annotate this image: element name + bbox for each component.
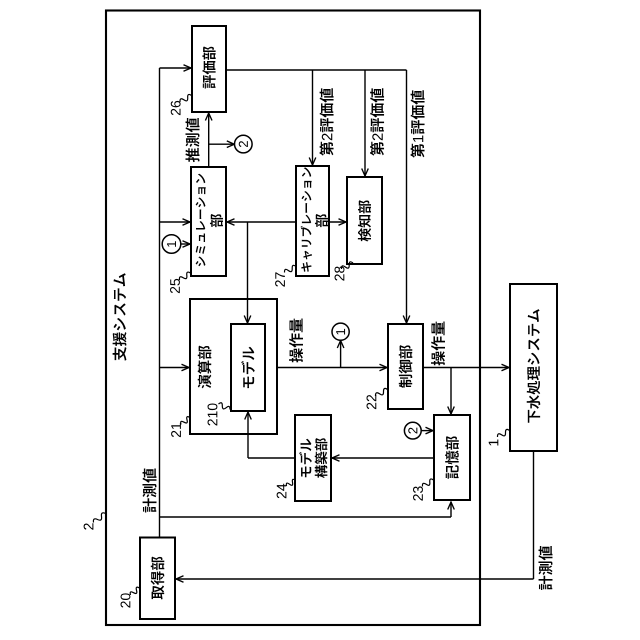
circled 1a digit bbox=[167, 241, 176, 247]
block: sewage treatment system 下水処理システム (1) bbox=[510, 284, 557, 451]
circled 1 marker (near simulation unit) bbox=[162, 235, 181, 254]
wire: drop to calibration unit (第2評価値) bbox=[312, 70, 314, 165]
ref 26 digits bbox=[171, 101, 181, 115]
text: キャリブレーション (line 1) bbox=[301, 167, 312, 271]
wire: model building to model (horizontal) bbox=[248, 457, 295, 459]
arrowhead into 記憶部 top edge bbox=[448, 407, 455, 415]
arrowhead into circled 1 (lower) bbox=[337, 341, 344, 349]
arrowhead into 検知部 top edge bbox=[362, 169, 369, 177]
circled 2a digit bbox=[239, 141, 248, 147]
squiggle for ref 24 bbox=[286, 479, 295, 486]
outer frame: support system 支援システム (2) bbox=[106, 11, 480, 626]
ref 23 digits bbox=[413, 486, 423, 500]
text: 検知部 bbox=[358, 200, 371, 241]
label: 推測値 (estimated value) bbox=[185, 118, 199, 162]
arrowhead into 評価部 left edge bbox=[184, 65, 192, 72]
ref 28 digits bbox=[335, 266, 345, 280]
arrowhead into 演算部 left edge bbox=[182, 364, 190, 371]
squiggle for ref 25 bbox=[179, 272, 190, 280]
label: 操作量 (manipulated variable, right) bbox=[431, 321, 445, 365]
wire: computation to control (操作量) bbox=[277, 367, 387, 369]
wire: bus to computation unit bbox=[160, 367, 190, 369]
circled 1b digit bbox=[336, 329, 345, 335]
arrowhead into 取得部 right edge bbox=[176, 576, 184, 583]
ref 21 digits bbox=[171, 423, 181, 437]
wire: bus branch to storage bottom (vertical) bbox=[450, 502, 452, 517]
ref 1 digit bbox=[489, 439, 499, 445]
wire: branch to circled 2 (upper) bbox=[209, 143, 235, 145]
label: 計測値 (measured value, from sewage system) bbox=[538, 546, 552, 590]
arrowhead into シミュレーション部 left edge (from circled 1) bbox=[183, 241, 191, 248]
wire: branch up to circled 1 (lower) bbox=[340, 341, 342, 368]
arrowhead into シミュレーション部 left edge bbox=[183, 219, 191, 226]
squiggle for ref 27 bbox=[284, 265, 296, 272]
block: control unit 制御部 (22) bbox=[388, 324, 423, 409]
wire: drop to detection unit (第2評価値) bbox=[364, 70, 366, 176]
block: model モデル (210) inside computation unit bbox=[231, 324, 265, 411]
arrowhead into モデル top edge bbox=[244, 316, 251, 324]
text: 記憶部 bbox=[445, 436, 459, 479]
squiggle for ref 23 bbox=[422, 479, 433, 487]
arrowhead into 下水処理システム left edge bbox=[502, 364, 510, 371]
wire: circled2 to storage bbox=[421, 430, 433, 432]
arrowhead into モデル構築部 right edge bbox=[332, 455, 340, 462]
ref 2 digit bbox=[84, 523, 94, 529]
arrowhead up into モデル bottom edge bbox=[245, 412, 252, 420]
label: 支援システム (support system title) bbox=[113, 273, 127, 361]
ref 210 digits bbox=[208, 403, 218, 425]
block: calibration unit キャリブレーション部 (27) bbox=[296, 166, 329, 276]
arrowhead into 記憶部 left edge bbox=[426, 427, 434, 434]
wire: measurement bus vertical (計測値 bus) bbox=[159, 68, 161, 538]
wire: evaluation output trunk bbox=[226, 69, 407, 71]
wire: simulation to evaluation (推測値) bbox=[208, 113, 210, 167]
wire: junction drop to model (inside computation box) bbox=[247, 299, 249, 323]
block: simulation unit シミュレーション部 (25) bbox=[191, 167, 226, 276]
circled 2 marker (near estimated value) bbox=[235, 135, 253, 153]
ref 22 digits bbox=[366, 395, 376, 409]
arrowhead into circled 2 (upper) bbox=[227, 141, 235, 148]
label: 計測値 (measured value, on bus) bbox=[142, 469, 156, 513]
text: モデル (line 1) bbox=[299, 439, 312, 478]
ref 20 digits bbox=[121, 593, 131, 607]
wire: sewage measurement out (vertical) bbox=[533, 451, 535, 579]
squiggle for ref 20 bbox=[130, 587, 139, 595]
arrowhead into 制御部 top edge bbox=[403, 316, 410, 324]
wire: model building to model (inside computation box) bbox=[247, 412, 249, 434]
wire: branch down to storage unit bbox=[450, 368, 452, 415]
block: evaluation unit 評価部 (26) bbox=[192, 26, 226, 112]
text: シミュレーション (line 1) bbox=[196, 174, 206, 267]
wire: drop to control unit (第1評価値) bbox=[406, 70, 408, 323]
label: 操作量 (manipulated variable, left) bbox=[289, 318, 303, 362]
squiggle for ref 1 bbox=[497, 429, 509, 437]
block: storage unit 記憶部 (23) bbox=[434, 415, 470, 500]
text: 部 (line 2 of calibration unit) bbox=[315, 214, 328, 227]
wire: control to sewage system (操作量) bbox=[423, 367, 509, 369]
squiggle for ref 26 bbox=[180, 94, 192, 102]
block: detection unit 検知部 (28) bbox=[347, 177, 382, 264]
text: モデル bbox=[241, 347, 255, 388]
label: 第2評価値 (second evaluation value, to detection) bbox=[370, 88, 384, 156]
wire: calibration to simulation bbox=[227, 221, 296, 223]
squiggle for ref 21 bbox=[181, 417, 190, 425]
arrowhead into キャリブレーション部 top edge bbox=[309, 158, 316, 166]
text: 評価部 bbox=[202, 46, 215, 88]
label: 第2評価値 (second evaluation value, to calibration) bbox=[319, 88, 333, 156]
circled 2b digit bbox=[408, 428, 417, 434]
text: 取得部 bbox=[151, 557, 165, 600]
squiggle for ref 28 bbox=[341, 262, 353, 269]
wire: circled1 to simulation bbox=[181, 243, 190, 245]
squiggle for ref 210 bbox=[219, 403, 231, 410]
wire: junction drop to model (upper part, outside computation box) bbox=[247, 222, 249, 299]
ref 24 digits bbox=[277, 484, 287, 499]
ref 25 digits bbox=[170, 279, 180, 293]
arrowhead up into 記憶部 bottom edge bbox=[448, 502, 455, 510]
circled 2 marker (near storage unit) bbox=[404, 422, 421, 439]
squiggle for ref 22 bbox=[375, 388, 387, 396]
block: computation unit 演算部 (21) bbox=[190, 299, 277, 434]
wire: bus to simulation unit bbox=[160, 221, 191, 223]
text: 下水処理システム bbox=[527, 309, 541, 423]
circled 1 marker (near control unit) bbox=[332, 323, 349, 340]
text: 演算部 bbox=[198, 346, 212, 389]
arrowhead up into 評価部 bottom edge bbox=[205, 113, 212, 121]
wire: bus branch to storage bottom (horizontal) bbox=[160, 516, 452, 518]
squiggle for ref 2 bbox=[93, 513, 105, 523]
arrowhead into 検知部 left edge bbox=[339, 219, 347, 226]
arrowhead into 制御部 left edge bbox=[380, 364, 388, 371]
wire: bus to evaluation unit bbox=[160, 67, 192, 69]
wire: calibration to detection bbox=[329, 221, 346, 223]
wire: sewage measurement to acquisition (horizontal) bbox=[176, 578, 534, 580]
wire: storage to model building bbox=[332, 457, 434, 459]
text: 制御部 bbox=[399, 345, 413, 388]
wire: model building to model (vertical, outside computation box) bbox=[247, 434, 249, 458]
block: acquisition unit 取得部 (20) bbox=[140, 538, 175, 620]
arrowhead into シミュレーション部 right edge bbox=[227, 219, 235, 226]
text: 構築部 (line 2) bbox=[315, 438, 328, 478]
label: 第1評価値 (first evaluation value) bbox=[410, 90, 424, 158]
ref 27 digits bbox=[275, 272, 285, 286]
text: 部 (line 2 of simulation unit) bbox=[210, 214, 223, 227]
block: model building unit モデル構築部 (24) bbox=[295, 415, 331, 501]
